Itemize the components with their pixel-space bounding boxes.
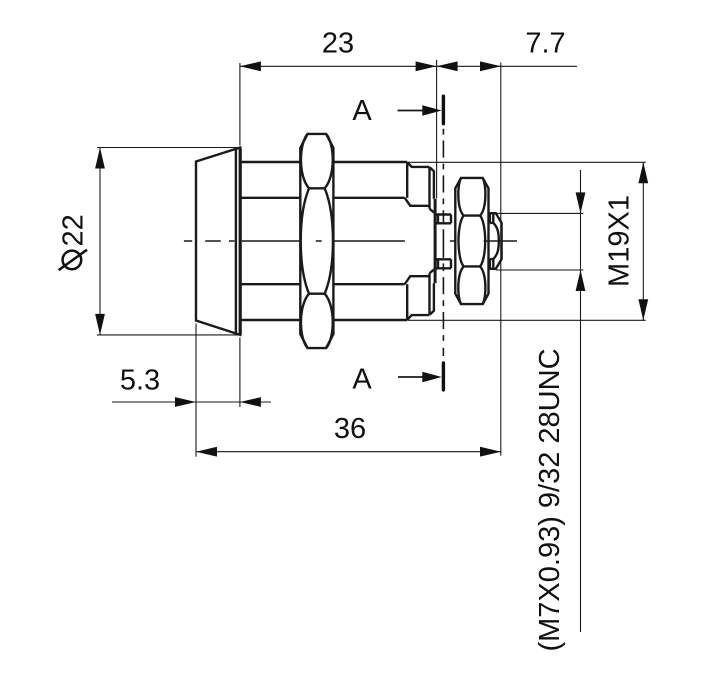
- svg-text:A: A: [352, 95, 372, 127]
- svg-text:(M7X0.93) 9/32 28UNC: (M7X0.93) 9/32 28UNC: [534, 348, 566, 651]
- svg-text:22: 22: [57, 214, 89, 246]
- svg-text:7.7: 7.7: [525, 27, 565, 59]
- svg-text:23: 23: [322, 28, 354, 60]
- svg-text:M19X1: M19X1: [604, 195, 636, 287]
- svg-text:36: 36: [334, 413, 366, 445]
- svg-text:5.3: 5.3: [120, 365, 160, 397]
- svg-text:A: A: [352, 363, 372, 395]
